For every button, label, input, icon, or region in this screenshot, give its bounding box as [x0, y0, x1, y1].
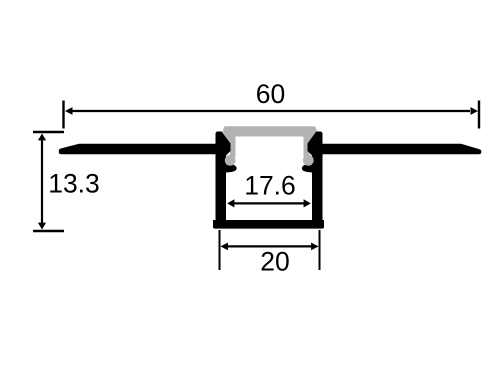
svg-text:60: 60 [256, 79, 285, 109]
svg-text:17.6: 17.6 [244, 171, 296, 201]
svg-text:20: 20 [260, 247, 289, 277]
svg-text:13.3: 13.3 [48, 169, 100, 199]
